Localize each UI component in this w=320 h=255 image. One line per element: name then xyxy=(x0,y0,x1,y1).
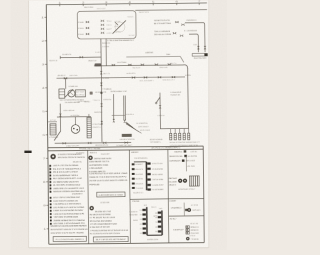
cluster A box 1 xyxy=(59,89,65,98)
table right border xyxy=(203,146,204,242)
overdrive switch vertical V8 xyxy=(159,93,161,105)
col4b bottom glyph row xyxy=(186,237,189,240)
table row divider (cols 3-4) xyxy=(130,197,204,200)
cluster A drop wire xyxy=(65,78,67,89)
col3b connector bars xyxy=(146,207,148,235)
table column divider 3 xyxy=(167,150,170,243)
col3 connector bar xyxy=(145,162,147,190)
wire bus A xyxy=(59,56,61,59)
grid row ticks xyxy=(44,16,46,18)
separator line upper xyxy=(48,146,203,148)
table column divider 1 xyxy=(87,150,90,243)
instrument cluster box U1 xyxy=(77,11,136,39)
control bottom junctions xyxy=(113,119,115,122)
horizontal W3 xyxy=(57,116,91,118)
cluster connectors middle xyxy=(101,20,104,22)
col4b icon rows xyxy=(186,226,189,228)
junction bus W5 xyxy=(160,128,188,130)
col4 fuse strip xyxy=(189,176,199,186)
separator line lower / table top xyxy=(48,149,203,151)
wire along frame top from cluster box xyxy=(135,9,207,12)
col2 donut icon xyxy=(88,156,92,160)
transfer position connector row xyxy=(170,129,172,134)
top-right terminal bar xyxy=(192,53,204,56)
frame top line 1 xyxy=(46,3,207,5)
frame left border xyxy=(46,4,49,244)
col4m icon row xyxy=(187,208,191,212)
cluster A box 2 xyxy=(75,90,85,97)
col2 donut icon 2 xyxy=(89,206,93,210)
col3b left pins xyxy=(142,209,145,211)
col2 bottom label box xyxy=(93,237,128,242)
resistor xyxy=(87,117,91,138)
vertical V3 right main drop xyxy=(187,68,190,128)
cluster A switch blade xyxy=(65,89,73,97)
bus C xyxy=(57,77,185,78)
registration mark xyxy=(24,151,31,153)
connector pairs on V1 xyxy=(100,71,102,74)
junction blob busB xyxy=(95,63,102,66)
ignition coil xyxy=(50,124,56,135)
wire from group1 to right xyxy=(185,23,205,53)
vertical V2 from cluster box xyxy=(105,39,107,66)
bus B xyxy=(94,65,188,70)
col4 bracket wire xyxy=(185,156,187,172)
col1 pin list top xyxy=(49,166,51,192)
col1 bottom label box xyxy=(53,236,86,241)
switch blade lower xyxy=(54,131,61,141)
stub wire left xyxy=(48,121,57,123)
paper sheet xyxy=(29,1,209,249)
col3b right pins xyxy=(158,212,161,214)
speedometer needle xyxy=(112,20,126,33)
cluster A circle gauge xyxy=(68,90,75,97)
table column divider 2 xyxy=(128,150,131,243)
vertical V1 from cluster box xyxy=(101,39,102,142)
bottom bus xyxy=(55,142,131,145)
right column sub divider xyxy=(169,215,204,217)
col1 header donut icon xyxy=(50,154,55,159)
table bottom border xyxy=(49,243,204,245)
junction on V1 xyxy=(100,92,102,94)
vertical V5 xyxy=(59,104,61,131)
col3 left pins xyxy=(132,163,135,165)
grid column ticks xyxy=(59,4,61,6)
control verticals xyxy=(112,94,114,120)
transfer connector bar xyxy=(122,134,132,137)
wire bus A right segment xyxy=(126,55,180,58)
motor M xyxy=(74,117,76,125)
col3 right pins xyxy=(147,162,150,164)
selector fan xyxy=(126,122,142,134)
col2 top label box xyxy=(97,192,125,197)
arrow connectors on right wires xyxy=(197,46,199,49)
blob junction left xyxy=(90,92,93,95)
wire from group2 down xyxy=(189,34,198,52)
